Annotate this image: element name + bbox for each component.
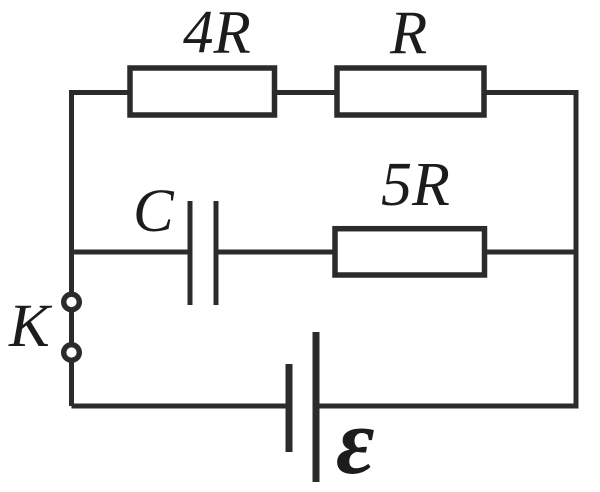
wire bottom-right horizontal [319,404,579,409]
resistor R3 5R box [335,229,485,275]
wire bottom-left horizontal [72,404,287,409]
wire right vertical [574,90,579,406]
wire top-right horizontal [484,90,579,95]
svg-text:C: C [133,178,175,245]
switch K terminal node top [64,294,80,310]
wire 5R to right vertical [485,250,577,255]
battery long plate [313,332,320,482]
capacitor C right plate [214,201,219,305]
capacitor C left plate [188,201,193,305]
svg-text:K: K [8,293,53,360]
resistor R1 4R box [130,68,275,115]
resistor R2 R box [337,68,484,115]
svg-text:R: R [389,0,427,67]
battery short plate [286,364,293,452]
svg-text:ε: ε [336,390,375,492]
switch K terminal node bottom [64,345,80,361]
wire left vertical [69,90,74,406]
wire between 4R and R [275,90,338,95]
svg-text:5R: 5R [381,151,450,219]
wire middle-left horizontal [72,250,189,255]
wire top-left horizontal [69,90,130,95]
wire capacitor to 5R [218,250,335,255]
svg-text:4R: 4R [183,0,251,67]
